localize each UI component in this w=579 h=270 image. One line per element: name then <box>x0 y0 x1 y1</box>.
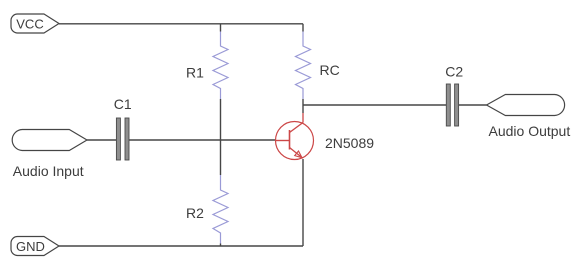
svg-text:RC: RC <box>320 62 340 78</box>
wire ground rail (bottom) <box>59 245 303 247</box>
wire input tag to C1 <box>87 139 116 141</box>
svg-text:GND: GND <box>16 239 45 254</box>
svg-text:R1: R1 <box>186 64 204 80</box>
resistor RC <box>296 32 340 100</box>
wire R2 bottom to ground rail <box>220 244 222 247</box>
capacitor C1 <box>114 96 132 160</box>
power flag GND <box>11 237 59 256</box>
svg-text:2N5089: 2N5089 <box>325 135 374 151</box>
wire collector node to C2 <box>303 104 446 106</box>
wire RC bottom to collector node <box>302 99 304 113</box>
wire VCC rail (top) <box>59 23 303 25</box>
resistor R1 <box>186 32 228 100</box>
svg-text:C2: C2 <box>445 64 463 80</box>
svg-text:Audio Output: Audio Output <box>489 123 571 139</box>
wire emitter to ground rail <box>302 159 304 246</box>
power flag VCC <box>11 14 59 33</box>
wire top rail to RC stub <box>302 24 304 32</box>
transistor Q1 2N5089 <box>276 113 375 160</box>
svg-text:R2: R2 <box>186 205 204 221</box>
svg-text:VCC: VCC <box>16 16 43 31</box>
wire top rail to R1 stub <box>220 24 222 32</box>
svg-text:Audio Input: Audio Input <box>13 163 84 179</box>
capacitor C2 <box>445 64 463 126</box>
port tag Audio Output <box>487 95 571 140</box>
resistor R2 <box>186 175 228 244</box>
port tag Audio Input <box>12 130 87 180</box>
wire C2 to output tag <box>459 104 487 106</box>
svg-text:C1: C1 <box>114 96 132 112</box>
wire base node to R2 <box>220 140 222 175</box>
wire R1 bottom to base node <box>220 99 222 140</box>
node base junction / wire base rail <box>129 139 276 141</box>
